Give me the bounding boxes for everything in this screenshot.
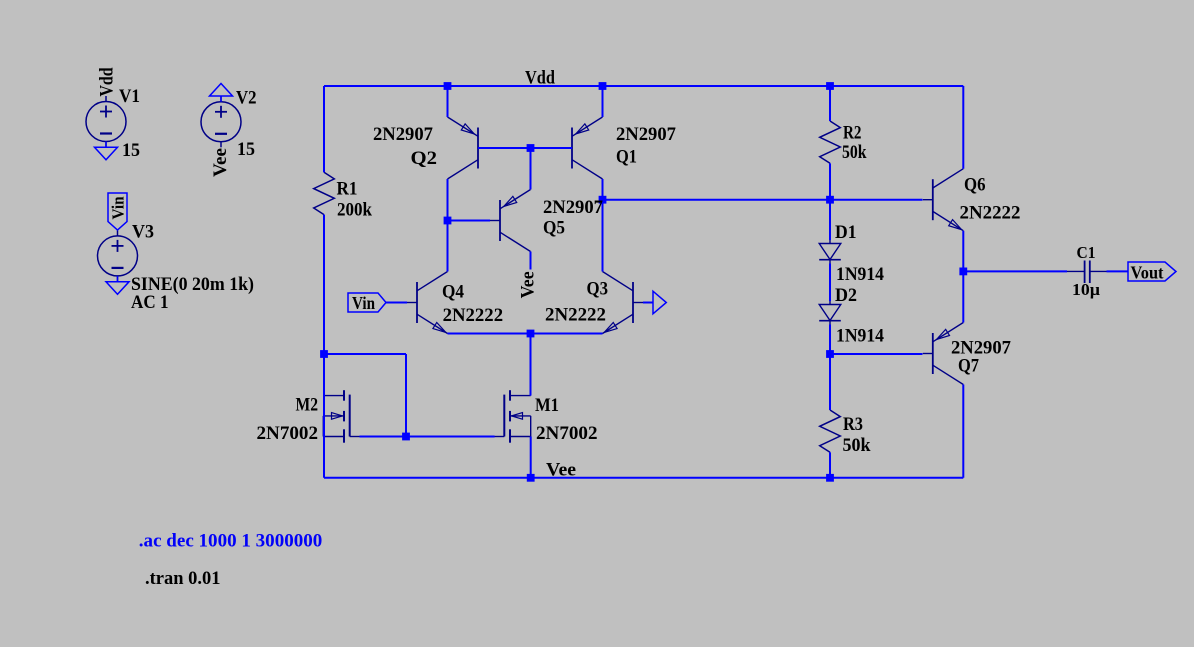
mosfet M2 (NMOS)	[343, 390, 345, 401]
ground (V1)	[105, 142, 107, 148]
svg-text:Q5: Q5	[543, 218, 565, 239]
svg-text:Vdd: Vdd	[525, 68, 555, 89]
wire first stage output to Q6 base	[603, 199, 923, 201]
wire Q1 emitter	[602, 86, 604, 117]
svg-text:Vee: Vee	[518, 271, 539, 298]
wire mirror top	[324, 353, 406, 355]
svg-text:Q4: Q4	[442, 282, 464, 303]
wire diff pair emitters	[448, 333, 603, 335]
wire Q5 emitter up	[530, 148, 532, 190]
wire M1 gate run	[406, 436, 495, 438]
svg-text:Vee: Vee	[546, 460, 576, 481]
svg-text:Q1: Q1	[616, 147, 637, 168]
ground (V3)	[117, 276, 119, 282]
svg-text:Vin: Vin	[109, 196, 128, 219]
wire C1 to Vout flag	[1107, 270, 1129, 272]
svg-text:2N7002: 2N7002	[536, 423, 598, 444]
ground flag (Q3 base)	[653, 291, 666, 314]
svg-text:1N914: 1N914	[836, 264, 884, 285]
svg-text:50k: 50k	[842, 142, 867, 163]
wire gate column	[405, 354, 407, 437]
svg-text:M1: M1	[535, 395, 559, 416]
wire tail to M1 drain	[530, 334, 532, 396]
wire Vin to Q4 base	[386, 302, 407, 304]
transistor Q5 (PNP)	[499, 200, 501, 241]
svg-text:M2: M2	[296, 395, 319, 416]
svg-text:2N2907: 2N2907	[373, 124, 433, 145]
svg-text:15: 15	[122, 140, 140, 161]
svg-text:R2: R2	[843, 123, 862, 144]
wire Q3 base to ground flag	[643, 302, 653, 304]
transistor Q7 (PNP)	[932, 333, 934, 374]
wire Q5 base	[448, 220, 491, 222]
svg-text:V1: V1	[119, 86, 140, 107]
voltage source V2	[201, 102, 241, 142]
voltage source V3	[98, 236, 138, 276]
wire Q7 collector down	[962, 385, 964, 478]
mosfet M1 (NMOS)	[509, 390, 511, 401]
svg-text:AC 1: AC 1	[131, 292, 169, 313]
svg-text:.ac dec 1000 1 3000000: .ac dec 1000 1 3000000	[139, 531, 322, 552]
wire D2 to node	[829, 325, 831, 355]
svg-text:Vout: Vout	[1131, 263, 1164, 283]
transistor Q6 (NPN)	[932, 179, 934, 220]
ground (V2)	[220, 96, 222, 102]
svg-text:2N7002: 2N7002	[257, 423, 319, 444]
transistor Q4 (NPN)	[416, 282, 418, 323]
resistor R1 body	[314, 172, 335, 214]
wire R2 top	[829, 86, 831, 121]
wire Vdd top rail	[324, 85, 963, 87]
svg-text:Vdd: Vdd	[97, 67, 118, 96]
svg-text:50k: 50k	[843, 435, 871, 456]
wire Q2 collector to Q4 collector	[447, 179, 449, 272]
svg-text:2N2907: 2N2907	[543, 197, 603, 218]
voltage source V1	[86, 102, 126, 142]
port flag Vin (Q4 base)	[348, 293, 386, 312]
wire Q1 collector to Q3 collector	[602, 179, 604, 272]
transistor Q1 (PNP)	[571, 128, 573, 169]
svg-text:1N914: 1N914	[836, 326, 884, 347]
svg-text:D2: D2	[835, 285, 857, 306]
svg-text:15: 15	[237, 139, 255, 160]
wire R2 bottom to D1	[829, 163, 831, 240]
svg-text:R1: R1	[337, 179, 358, 200]
wire Q6 emitter to Q7 emitter	[962, 231, 964, 323]
wire junctions	[444, 82, 452, 90]
svg-text:Q6: Q6	[964, 175, 986, 196]
diode D1	[829, 240, 831, 244]
svg-text:V3: V3	[132, 222, 154, 243]
svg-text:2N2222: 2N2222	[960, 203, 1021, 224]
port flag Vin (V3)	[108, 193, 127, 230]
svg-text:2N2907: 2N2907	[616, 124, 676, 145]
wire R3 bottom	[829, 452, 831, 478]
wire Q5 collector stub	[530, 252, 532, 270]
svg-text:2N2222: 2N2222	[443, 305, 504, 326]
svg-text:2N2222: 2N2222	[545, 305, 606, 326]
diode D2	[829, 301, 831, 305]
svg-text:10µ: 10µ	[1072, 280, 1100, 299]
svg-text:V2: V2	[236, 88, 257, 109]
svg-text:C1: C1	[1077, 243, 1096, 262]
svg-text:Q3: Q3	[587, 279, 609, 300]
svg-text:200k: 200k	[337, 200, 372, 221]
wire D1 to D2	[829, 264, 831, 302]
wire R1 bottom / left column	[323, 215, 325, 478]
svg-text:Vin: Vin	[352, 293, 375, 313]
wire right column top (Q6 collector)	[962, 86, 964, 169]
resistor R2 body	[820, 121, 841, 163]
transistor Q2 (PNP)	[477, 128, 479, 169]
wire Q2 emitter	[447, 86, 449, 117]
wire to Q7 base	[830, 353, 923, 355]
wire Q1-Q2 base rail	[478, 147, 572, 149]
wire M2 gate run	[360, 436, 407, 438]
wire output node to C1	[963, 270, 1067, 272]
resistor R3 body	[820, 410, 841, 452]
wire node to R3	[829, 354, 831, 410]
svg-text:Vee: Vee	[210, 148, 231, 177]
svg-text:Q7: Q7	[958, 356, 979, 377]
capacitor C1 body	[1067, 270, 1085, 272]
wire Vee bottom rail	[324, 477, 963, 479]
wire R1 top	[323, 86, 325, 172]
svg-text:R3: R3	[843, 414, 863, 435]
wire M1 source down	[530, 437, 532, 478]
svg-text:D1: D1	[835, 222, 857, 243]
svg-text:Q2: Q2	[411, 148, 438, 169]
transistor Q3 (NPN)	[632, 282, 634, 323]
port flag Vout	[1128, 262, 1176, 281]
svg-text:.tran 0.01: .tran 0.01	[145, 568, 221, 589]
